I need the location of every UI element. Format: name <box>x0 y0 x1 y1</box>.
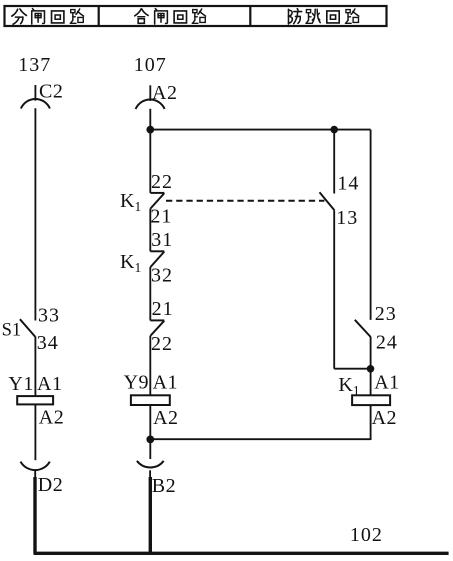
header divider 2 <box>249 6 251 26</box>
contact K1 31/32 seat <box>150 250 164 252</box>
wire node to K1 coil <box>370 369 372 396</box>
connector A2 pin top <box>149 85 151 101</box>
svg-text:31: 31 <box>151 229 173 251</box>
connector B2 pin lower <box>149 470 151 477</box>
wire contact2 to contact3 <box>149 267 151 320</box>
svg-text:A2: A2 <box>153 407 178 429</box>
contact K1 22/21 seat <box>150 192 164 194</box>
svg-text:K1: K1 <box>120 190 141 214</box>
header cell text 分闸回路 <box>12 9 84 25</box>
svg-text:102: 102 <box>350 524 383 546</box>
svg-text:34: 34 <box>37 332 59 354</box>
bottom bus wire 102 <box>34 552 449 555</box>
bottom link wire <box>150 438 370 440</box>
contact K1 23/24 blade <box>355 320 371 337</box>
coil Y1 <box>17 396 53 404</box>
connector C2 socket arc <box>21 99 50 109</box>
wire node to K1 contact 22 <box>149 130 151 193</box>
connector B2 pin from node <box>149 443 151 459</box>
connector D2 pin <box>34 471 36 478</box>
svg-text:24: 24 <box>376 332 398 354</box>
switch S1 blade <box>20 319 35 336</box>
connector D2 socket arc <box>21 462 50 470</box>
svg-text:A1: A1 <box>37 373 62 395</box>
coil Y9 <box>131 395 170 405</box>
header cell text 合闸回路 <box>135 9 206 24</box>
wire contact 24 to node <box>370 337 372 369</box>
svg-text:13: 13 <box>336 207 358 229</box>
top horizontal wire <box>150 129 370 131</box>
connector C2 pin top <box>34 85 36 101</box>
svg-text:22: 22 <box>151 171 173 193</box>
svg-text:C2: C2 <box>39 80 63 102</box>
svg-text:A2: A2 <box>372 407 397 429</box>
svg-text:S1: S1 <box>2 321 22 341</box>
wire contact3 to Y9 <box>149 336 151 396</box>
contact K1 14/13 blade <box>320 192 335 210</box>
junction dot anti-pump branch <box>330 126 338 134</box>
svg-text:A2: A2 <box>152 82 177 104</box>
svg-text:B2: B2 <box>152 475 176 497</box>
wire top to contact 23 <box>370 130 372 320</box>
thick wire D2 to bus <box>33 477 36 554</box>
svg-text:D2: D2 <box>38 474 63 496</box>
svg-text:32: 32 <box>151 265 173 287</box>
svg-text:14: 14 <box>337 172 359 194</box>
header divider 1 <box>98 6 100 26</box>
svg-text:107: 107 <box>134 54 167 76</box>
connector B2 socket arc <box>137 461 164 468</box>
header cell text 防跳回路 <box>288 9 358 24</box>
svg-text:K1: K1 <box>120 251 141 275</box>
wire bend to K1 coil node <box>334 368 370 370</box>
wire node to contact 14 <box>333 130 335 194</box>
svg-text:21: 21 <box>152 298 174 320</box>
header table outer box <box>5 6 387 26</box>
junction dot below Y9 <box>146 436 154 444</box>
wire contact 13 down <box>333 210 335 369</box>
contact K1 22/21 blade <box>150 193 164 208</box>
junction dot above K1 coil <box>367 365 375 373</box>
svg-text:A1: A1 <box>153 372 178 394</box>
coil K1 <box>352 395 390 405</box>
thick wire B2 to bus <box>149 477 152 554</box>
contact 21/22 blade <box>150 321 164 336</box>
junction dot below A2 <box>146 126 154 134</box>
svg-text:23: 23 <box>375 303 397 325</box>
wire Y1 to D2 <box>34 404 36 460</box>
svg-text:A2: A2 <box>39 406 64 428</box>
svg-text:22: 22 <box>151 333 173 355</box>
dashed mechanical link <box>166 200 324 202</box>
svg-text:137: 137 <box>18 54 51 76</box>
contact K1 31/32 blade <box>150 252 164 268</box>
svg-text:Y9: Y9 <box>124 372 149 394</box>
wire S1 to Y1 <box>34 336 36 396</box>
contact 21/22 seat <box>150 319 164 321</box>
svg-text:33: 33 <box>38 304 60 326</box>
svg-text:Y1: Y1 <box>8 373 33 395</box>
svg-text:21: 21 <box>150 205 172 227</box>
wire A2 to node <box>149 109 151 130</box>
svg-text:A1: A1 <box>374 371 399 393</box>
wire C2 to S1 <box>34 108 36 320</box>
wire contact1 to contact2 <box>149 209 151 252</box>
wire Y9 to node <box>149 405 151 443</box>
connector A2 socket arc <box>136 99 165 109</box>
wire K1 coil to bottom link <box>370 405 372 440</box>
